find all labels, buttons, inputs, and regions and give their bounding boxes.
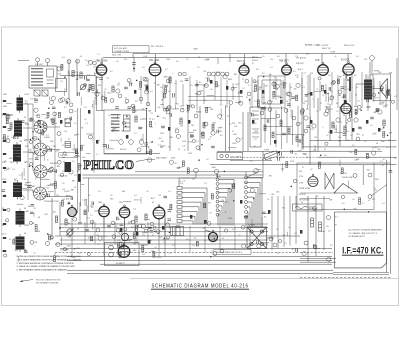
callout r7-45 — [356, 137, 360, 141]
tube V1 7B8 converter — [96, 62, 106, 75]
svg-text:.1: .1 — [322, 127, 324, 129]
wire coil-wafer 0 — [23, 104, 33, 127]
coil small hatched — [65, 142, 71, 148]
wire r16-11 — [102, 235, 108, 237]
tube V6B driver — [341, 101, 351, 114]
callout r2-5 — [239, 101, 243, 105]
capacitor r11-5 — [176, 226, 180, 228]
resistor r1-26 — [140, 81, 142, 87]
tone control arrowhead — [277, 152, 280, 154]
wire osc right — [146, 110, 148, 154]
resistor r11-39 — [170, 204, 172, 209]
wire V6 cathode dark — [349, 77, 351, 91]
wire bus y151 — [217, 150, 320, 152]
wire vertical r 11 — [367, 75, 369, 111]
svg-text:2-7: 2-7 — [303, 73, 306, 75]
junction r2-40 — [263, 76, 265, 78]
capacitor r5-0 — [170, 113, 172, 117]
wire drop to V4 — [285, 54, 287, 65]
wire r18-21 — [41, 113, 45, 115]
wire callout A lead — [179, 173, 196, 182]
callout r18-57 — [49, 100, 53, 104]
wire r5-27 — [160, 145, 165, 147]
capacitor r7-58 — [306, 126, 310, 128]
svg-text:XXL OSC.: XXL OSC. — [149, 59, 160, 62]
svg-text:6-8: 6-8 — [277, 56, 280, 58]
svg-text:RED: RED — [212, 167, 217, 169]
callout r3-1 — [332, 81, 335, 84]
speaker frame — [373, 74, 391, 101]
RF coil L2 — [14, 118, 22, 139]
wire cap lead — [133, 57, 135, 72]
wire r10-34 — [156, 256, 162, 258]
part under V1 4 — [139, 97, 143, 101]
resistor r1-42 — [187, 105, 189, 110]
wire vertical t 10 — [282, 80, 284, 104]
svg-text:.1: .1 — [172, 73, 174, 75]
svg-text:7B8 CONV.: 7B8 CONV. — [96, 60, 109, 63]
resistor R50 — [311, 218, 314, 227]
wire r18-1 — [29, 152, 37, 154]
pickup bowtie — [325, 173, 334, 189]
svg-text:1-6: 1-6 — [386, 147, 389, 149]
svg-text:3-2: 3-2 — [72, 161, 75, 163]
capacitor r0-20 — [78, 92, 80, 96]
wire notes box bottom line 2 — [333, 273, 389, 275]
svg-text:100K: 100K — [71, 257, 76, 259]
resistor r18-52 — [55, 182, 57, 188]
svg-text:PICKUP: PICKUP — [299, 194, 306, 196]
svg-text:.02: .02 — [84, 107, 87, 109]
mid part 5 — [138, 224, 142, 228]
wire bus y164 — [210, 164, 397, 166]
wire bottom rule — [130, 278, 398, 280]
svg-text:5-6: 5-6 — [269, 74, 272, 76]
resistor R22 — [383, 120, 385, 126]
callout avc 7 — [296, 122, 300, 126]
junction r9-4 — [48, 107, 50, 109]
capacitor r15-6 — [280, 152, 282, 156]
capacitor r3-51 — [367, 99, 369, 103]
dark component fleck 10 — [352, 128, 354, 132]
svg-text:3-3: 3-3 — [117, 85, 120, 87]
callout r11-55 — [241, 225, 245, 229]
wafer pin d — [29, 185, 32, 188]
wire harness 3 — [55, 235, 300, 237]
svg-text:2-2: 2-2 — [333, 127, 336, 129]
junction r5-23 — [201, 144, 203, 146]
svg-text:SW: SW — [253, 91, 256, 93]
svg-text:68: 68 — [347, 140, 349, 142]
wire chassis line mid — [135, 171, 263, 173]
junction r11-52 — [224, 171, 226, 173]
dial lamp 1 — [220, 154, 223, 157]
wire r11-53 — [261, 242, 270, 244]
capacitor C20 — [358, 127, 362, 129]
callout r5 — [354, 118, 358, 122]
callout r2-18 — [231, 87, 234, 90]
wire xfmr side — [267, 237, 275, 239]
svg-text:LOOP: LOOP — [24, 94, 30, 96]
svg-text:1-8: 1-8 — [142, 67, 145, 69]
callout r2-9 — [253, 80, 256, 83]
wire vertical 5 — [182, 84, 184, 106]
wire avc vertical 4 — [286, 108, 288, 143]
wire notes box bottom line 1 — [333, 272, 389, 274]
wire vertical r 1 — [307, 75, 309, 105]
svg-text:47: 47 — [274, 77, 276, 79]
wire harness drop 2 — [114, 222, 116, 244]
svg-text:1-9: 1-9 — [108, 115, 111, 117]
svg-text:47: 47 — [302, 167, 304, 169]
left margin terminal mark 11 — [3, 250, 6, 252]
socket pin 9 — [58, 98, 62, 102]
resistor r11-44 — [211, 194, 213, 199]
capacitor r3-3 — [380, 89, 384, 91]
svg-text:GRN: GRN — [162, 239, 167, 241]
svg-text:1-4: 1-4 — [217, 192, 220, 194]
resistor r18-29 — [52, 120, 54, 125]
svg-text:1-1: 1-1 — [96, 154, 99, 156]
svg-text:390: 390 — [180, 81, 183, 83]
wire r11-18 — [259, 193, 266, 195]
callout r10-54 — [112, 235, 116, 239]
svg-text:2-2: 2-2 — [327, 103, 330, 105]
dark component fleck 23 — [162, 226, 164, 230]
junction r16-6 — [169, 232, 171, 234]
socket pin 10 — [66, 98, 70, 102]
svg-text:6A8: 6A8 — [244, 182, 247, 185]
resistor R6 — [112, 86, 114, 92]
svg-text:8-2: 8-2 — [250, 161, 253, 163]
svg-text:.01: .01 — [238, 235, 241, 237]
capacitor r9-6 — [34, 99, 38, 101]
trimmer capacitor T3 — [207, 72, 211, 76]
wire antenna bus lower — [103, 56, 262, 58]
capacitor r4-1 — [103, 145, 107, 147]
capacitor r9-53 — [30, 212, 34, 214]
resistor avc 1 — [272, 132, 274, 138]
svg-text:SEE SEPARATE DIAGRAM: SEE SEPARATE DIAGRAM — [36, 281, 59, 284]
callout r6 — [378, 110, 382, 114]
wire — [329, 104, 331, 141]
wire vertical r 7 — [343, 78, 345, 111]
pad callout — [60, 173, 63, 176]
svg-text:47: 47 — [366, 86, 368, 88]
callout r3 — [324, 112, 328, 116]
resistor r19-25 — [38, 120, 40, 125]
svg-text:SW: SW — [299, 171, 302, 173]
svg-text:YEL: YEL — [14, 180, 17, 182]
resistor R41 — [145, 214, 147, 220]
wire left column bus — [27, 104, 29, 200]
wire — [315, 196, 317, 256]
svg-text:1-3: 1-3 — [276, 229, 279, 231]
junction r11-45 — [290, 186, 292, 188]
svg-text:4. SEE SEPARATE WIRING DIAGRAM: 4. SEE SEPARATE WIRING DIAGRAM FOR CHANG… — [17, 269, 68, 272]
svg-text:.1: .1 — [312, 99, 314, 101]
wire r3-47 — [381, 88, 383, 94]
svg-text:.05: .05 — [325, 107, 328, 109]
capacitor r16-12 — [120, 224, 124, 226]
svg-text:R.F. UNIT: R.F. UNIT — [35, 64, 44, 66]
svg-text:220K: 220K — [216, 72, 221, 74]
resistor R20 — [332, 122, 334, 128]
svg-text:8-2: 8-2 — [186, 111, 189, 113]
capacitor C8 — [124, 87, 128, 89]
callout r4-10 — [145, 142, 148, 145]
diagonal leader to speaker field — [371, 185, 387, 197]
svg-text:68: 68 — [81, 128, 83, 130]
bandswitch wafer S1C — [34, 165, 47, 178]
capacitor r20-12 — [150, 231, 154, 233]
svg-text:1-0: 1-0 — [206, 159, 209, 161]
capacitor r8-2 — [75, 154, 79, 156]
resistor r1-49 — [165, 88, 167, 93]
capacitor C21 — [370, 117, 374, 119]
wire drop x230 — [229, 54, 231, 62]
IF can shield box — [250, 107, 261, 147]
callout r18-53 — [53, 112, 57, 116]
dark component fleck 19 — [136, 232, 138, 236]
dark component fleck 17 — [146, 86, 148, 90]
resistor r10-33 — [122, 244, 124, 249]
svg-text:1 M: 1 M — [310, 129, 313, 131]
capacitor r1-25 — [127, 107, 131, 109]
capacitor r10-21 — [167, 219, 171, 221]
resistor r1-37 — [133, 107, 135, 113]
svg-text:47: 47 — [169, 253, 171, 255]
wire module pin2 lead — [47, 63, 49, 66]
wire coil-wafer 1 — [23, 128, 33, 149]
svg-text:FIELD COIL: FIELD COIL — [344, 45, 354, 47]
svg-text:.05: .05 — [394, 96, 396, 98]
wire — [362, 165, 364, 185]
svg-text:CONE: CONE — [330, 52, 336, 54]
dark component fleck 11 — [366, 120, 368, 124]
capacitor r3-52 — [305, 94, 309, 96]
resistor r16-3 — [136, 225, 138, 231]
part 82 — [327, 216, 331, 220]
tube V3 IF amp — [239, 63, 249, 76]
dark component fleck 14 — [240, 200, 242, 204]
wire harness 8 — [100, 263, 332, 265]
capacitor r1-9 — [130, 83, 132, 87]
svg-text:15: 15 — [322, 95, 324, 97]
junction r1-33 — [136, 80, 138, 82]
part 6 — [76, 59, 80, 63]
resistor r3-39 — [387, 90, 389, 95]
callout r18-7 — [37, 115, 40, 118]
svg-text:6-3: 6-3 — [150, 91, 153, 93]
callout r3-15 — [373, 93, 376, 96]
callout r1-27 — [166, 108, 169, 111]
wire callout B lead — [217, 174, 218, 178]
wire xfmr lead 2 — [261, 217, 263, 227]
resistor r1-17 — [163, 93, 165, 98]
wire tube lead 2 — [158, 218, 160, 229]
left margin terminal mark 2 — [3, 126, 6, 128]
callout r11-12 — [257, 244, 261, 248]
callout avc 4 — [292, 116, 296, 120]
capacitor r2-0 — [291, 97, 295, 99]
dark component fleck 1 — [134, 90, 136, 94]
wire harness drop 4 — [147, 222, 149, 244]
wire drop 0 — [271, 196, 273, 250]
callout r9-1 — [34, 108, 38, 112]
svg-text:.02: .02 — [326, 135, 329, 137]
capacitor r11-1 — [262, 212, 266, 214]
wire vertical 3 — [169, 76, 171, 110]
wire — [44, 196, 72, 198]
wire wafer link — [40, 134, 42, 144]
svg-text:8-7: 8-7 — [292, 249, 295, 251]
oscillator coil L5 winding block — [111, 114, 120, 131]
part under V1 6 — [131, 104, 135, 108]
svg-text:3-4: 3-4 — [232, 229, 235, 231]
callout r4-11 — [137, 148, 141, 152]
svg-text:22: 22 — [204, 241, 206, 243]
wire — [59, 202, 61, 236]
svg-text:1-8: 1-8 — [74, 175, 77, 177]
junction r11-42 — [210, 256, 212, 258]
svg-text:8-5: 8-5 — [74, 135, 77, 137]
resistor r0-6 — [61, 64, 63, 70]
osc coil L4 — [13, 180, 22, 200]
svg-text:6K7: 6K7 — [306, 54, 309, 56]
capacitor r10-32 — [168, 210, 172, 212]
bandswitch wafer S1D — [34, 187, 47, 200]
wire r10-29 — [84, 200, 86, 206]
svg-text:3-3: 3-3 — [324, 155, 327, 157]
resistor r18-32 — [47, 112, 49, 117]
svg-text:3-3: 3-3 — [87, 74, 90, 76]
callout 23 — [211, 131, 215, 135]
tube V13 — [209, 230, 218, 242]
callout r7-56 — [348, 118, 351, 121]
svg-text:.05: .05 — [192, 245, 195, 247]
svg-text:.02: .02 — [33, 146, 36, 148]
part 90 — [69, 109, 73, 113]
arrow head — [20, 280, 23, 282]
mid part 0 — [90, 220, 94, 224]
capacitor r6-8 — [252, 113, 254, 117]
resistor R4 — [92, 85, 94, 91]
capacitor r1-29 — [195, 84, 199, 86]
wire r3-57 — [306, 105, 308, 110]
svg-text:.01: .01 — [186, 59, 189, 61]
svg-text:2-2: 2-2 — [64, 89, 67, 91]
wire drop to V3 — [244, 54, 246, 65]
tube V12 rectifier — [118, 243, 130, 257]
callout r10-35 — [119, 231, 122, 234]
svg-text:330: 330 — [133, 244, 136, 246]
svg-text:BLK: BLK — [33, 154, 37, 156]
svg-text:3-3: 3-3 — [107, 77, 110, 79]
wire harness 4 — [60, 239, 268, 241]
wire r7-30 — [314, 145, 316, 151]
resistor r18-25 — [6, 119, 8, 124]
svg-text:YEL: YEL — [355, 113, 358, 115]
wire r1-16 — [207, 95, 214, 97]
wire harness vert 0 — [174, 226, 176, 252]
wire r0-30 — [91, 104, 93, 108]
svg-text:1-7: 1-7 — [362, 203, 365, 205]
svg-text:DIAL SCALE: DIAL SCALE — [156, 157, 168, 160]
callout r8-19 — [69, 170, 73, 174]
svg-text:3-7: 3-7 — [380, 161, 383, 163]
svg-text:82: 82 — [79, 253, 81, 255]
part under V1 3 — [125, 99, 129, 103]
wire r0-18 — [68, 71, 70, 76]
capacitor r1-28 — [173, 93, 175, 97]
wire V2 cathode — [155, 75, 157, 113]
svg-text:8-3: 8-3 — [62, 57, 65, 59]
dark component fleck 21 — [240, 90, 242, 94]
svg-text:1 M: 1 M — [378, 72, 382, 74]
svg-text:3-3: 3-3 — [133, 209, 136, 211]
resistor r7-28 — [355, 149, 357, 154]
svg-text:68: 68 — [175, 163, 177, 165]
part 73 — [213, 252, 217, 256]
callout r7-15 — [301, 109, 305, 113]
wire r1-53 — [204, 106, 211, 108]
junction r19-15 — [32, 137, 34, 139]
svg-text:.02: .02 — [310, 169, 313, 171]
svg-text:3-3: 3-3 — [86, 65, 89, 67]
capacitor r18-2 — [20, 216, 24, 218]
svg-text:1 M: 1 M — [221, 200, 224, 202]
wire r16-20 — [136, 236, 138, 244]
svg-text:39: 39 — [289, 99, 291, 101]
wire r19-5 — [21, 172, 23, 180]
callout r0-3 — [57, 67, 61, 71]
svg-text:68: 68 — [376, 143, 378, 145]
wire r2-45 — [235, 102, 241, 104]
capacitor C30 — [78, 222, 82, 224]
wire drop junction — [132, 54, 134, 58]
wire vertical r 10 — [361, 72, 363, 108]
wire tube drop 4 — [164, 218, 166, 257]
wire r8-14 — [86, 152, 91, 154]
wire vertical t 4 — [238, 74, 240, 104]
junction r0-13 — [64, 76, 66, 78]
tube socket strip A with fan-out wiring — [177, 182, 207, 225]
wire r1-31 — [175, 105, 177, 110]
tube socket strip C with fan-out wiring — [245, 172, 263, 227]
wire avc vertical 1 — [270, 108, 272, 145]
arrow down — [68, 201, 70, 204]
svg-text:64: 64 — [2, 225, 4, 227]
callout r11-21 — [242, 244, 246, 248]
resistor r18-48 — [35, 225, 37, 231]
tube V5 detector — [318, 62, 329, 75]
wire drop 4 — [295, 196, 297, 244]
dark component fleck 4 — [188, 120, 190, 124]
resistor r18-14 — [48, 235, 50, 240]
tone arm triangle — [334, 184, 358, 194]
capacitor r0-1 — [88, 89, 90, 93]
svg-text:54: 54 — [80, 56, 82, 58]
svg-text:2-5: 2-5 — [254, 101, 257, 103]
svg-text:.02: .02 — [210, 89, 213, 91]
svg-text:39: 39 — [225, 212, 227, 214]
resistor R12 — [180, 118, 182, 124]
junction r11-15 — [253, 198, 255, 200]
svg-text:47: 47 — [115, 226, 117, 228]
wire r9-20 — [6, 102, 11, 104]
left margin terminal mark 1 — [3, 113, 6, 115]
